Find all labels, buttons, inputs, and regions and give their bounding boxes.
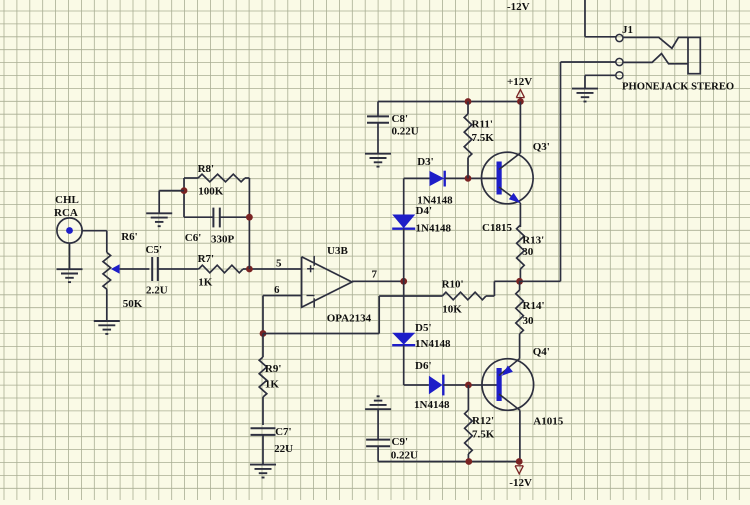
- svg-text:1N4148: 1N4148: [414, 399, 450, 411]
- svg-text:R13': R13': [522, 235, 544, 247]
- svg-text:C6': C6': [185, 232, 202, 244]
- svg-text:30: 30: [523, 315, 535, 327]
- svg-text:-12V: -12V: [507, 1, 530, 13]
- svg-text:C5': C5': [146, 244, 163, 256]
- svg-text:Q3': Q3': [533, 141, 550, 153]
- svg-text:R8': R8': [198, 163, 215, 175]
- svg-text:R6': R6': [121, 231, 138, 243]
- svg-text:1N4148: 1N4148: [416, 223, 452, 235]
- svg-text:10K: 10K: [442, 304, 462, 316]
- svg-text:0.22U: 0.22U: [392, 126, 419, 138]
- svg-text:1K: 1K: [198, 277, 213, 289]
- svg-text:J1: J1: [622, 24, 633, 36]
- svg-text:1N4148: 1N4148: [415, 338, 451, 350]
- svg-text:22U: 22U: [274, 443, 293, 455]
- svg-text:5: 5: [276, 258, 282, 270]
- svg-text:0.22U: 0.22U: [391, 450, 418, 462]
- svg-text:OPA2134: OPA2134: [327, 313, 372, 325]
- svg-text:PHONEJACK STEREO: PHONEJACK STEREO: [622, 82, 734, 93]
- svg-text:50K: 50K: [123, 298, 143, 310]
- svg-text:R14': R14': [523, 300, 545, 312]
- svg-text:A1015: A1015: [533, 416, 563, 428]
- svg-text:R10': R10': [442, 279, 464, 291]
- svg-text:R12': R12': [472, 415, 494, 427]
- svg-text:6: 6: [274, 284, 280, 296]
- svg-text:C7': C7': [275, 426, 292, 438]
- svg-text:C9': C9': [392, 436, 409, 448]
- svg-text:+12V: +12V: [507, 76, 532, 88]
- svg-text:1N4148: 1N4148: [417, 195, 453, 207]
- svg-text:U3B: U3B: [327, 245, 348, 257]
- svg-text:D5': D5': [415, 322, 432, 334]
- svg-text:CHL: CHL: [55, 194, 79, 206]
- svg-text:100K: 100K: [198, 186, 224, 198]
- svg-text:RCA: RCA: [54, 207, 78, 219]
- svg-text:7.5K: 7.5K: [472, 132, 495, 144]
- svg-text:Q4': Q4': [533, 346, 550, 358]
- svg-text:7.5K: 7.5K: [472, 429, 495, 441]
- svg-text:2.2U: 2.2U: [146, 285, 168, 297]
- svg-text:30: 30: [522, 246, 534, 258]
- svg-text:C1815: C1815: [482, 222, 512, 234]
- svg-text:D6': D6': [415, 360, 432, 372]
- svg-text:R7': R7': [198, 253, 215, 265]
- svg-text:1K: 1K: [265, 379, 280, 391]
- svg-text:R9': R9': [265, 363, 282, 375]
- svg-text:7: 7: [372, 269, 378, 281]
- svg-text:R11': R11': [472, 119, 493, 131]
- svg-text:D4': D4': [416, 205, 433, 217]
- svg-text:-12V: -12V: [509, 477, 532, 489]
- svg-text:D3': D3': [417, 156, 434, 168]
- svg-text:330P: 330P: [211, 234, 235, 246]
- svg-text:C8': C8': [392, 113, 409, 125]
